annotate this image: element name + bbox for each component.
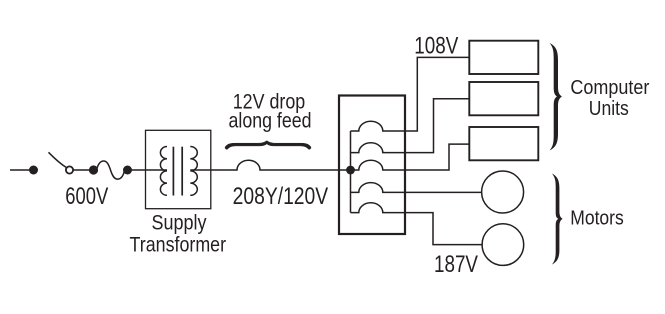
computer unit 3 <box>469 127 538 160</box>
transformer T1 box <box>146 130 211 208</box>
bus <box>350 131 352 213</box>
wire: feeder squiggle <box>97 161 125 179</box>
wire: panel to motor 1 <box>405 191 482 193</box>
wire: panel to motor 2 <box>405 213 482 245</box>
svg-text:Computer: Computer <box>570 77 649 99</box>
svg-text:along feed: along feed <box>229 110 312 133</box>
wire: feeder with impedance hump to panel bus <box>211 160 351 170</box>
computer unit 1 <box>469 41 538 74</box>
wire <box>132 169 147 171</box>
transformer T1 core <box>173 147 182 196</box>
breaker CB4 <box>351 183 406 193</box>
breaker CB5 <box>351 203 406 213</box>
svg-text:Units: Units <box>589 98 629 120</box>
wire: source lead <box>10 169 30 171</box>
junction dot <box>123 166 132 175</box>
switch SW1 blade <box>49 152 67 168</box>
svg-text:108V: 108V <box>414 33 458 60</box>
svg-text:208Y/120V: 208Y/120V <box>233 183 329 210</box>
wire <box>73 169 90 171</box>
breaker CB1 <box>351 121 406 131</box>
panelboard box <box>339 96 405 235</box>
wire: T1 secondary lead <box>190 169 211 171</box>
wire: panel to computer unit 1 <box>405 57 469 131</box>
node: source terminal dot <box>29 166 38 175</box>
wire: T1 primary lead <box>146 169 168 171</box>
junction dot on bus <box>346 166 355 175</box>
switch SW1 hinge terminal <box>66 166 73 173</box>
motor M2 <box>482 224 524 266</box>
svg-text:Supply: Supply <box>152 212 207 235</box>
computer unit 2 <box>469 82 538 115</box>
brace: motors group <box>552 174 563 265</box>
breaker CB3 <box>351 160 406 170</box>
brace over feed <box>225 141 311 150</box>
brace: computer units group <box>550 43 562 151</box>
svg-text:Motors: Motors <box>570 207 624 229</box>
breaker CB2 <box>351 143 406 153</box>
junction dot <box>89 165 98 174</box>
svg-text:Transformer: Transformer <box>130 234 227 257</box>
motor M1 <box>482 171 524 213</box>
wire: panel to computer unit 2 <box>405 99 469 153</box>
wire: panel to computer unit 3 <box>405 144 469 170</box>
transformer T1 primary winding <box>160 147 167 196</box>
svg-text:600V: 600V <box>65 183 108 210</box>
transformer T1 secondary winding <box>190 147 197 196</box>
svg-text:187V: 187V <box>434 251 478 278</box>
